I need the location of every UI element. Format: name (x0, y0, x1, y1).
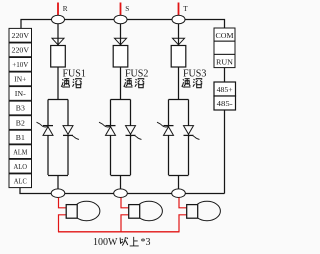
thyristor Q3b (down, right branch) (183, 126, 199, 140)
fuse holder arrow 3 (173, 38, 185, 45)
terminal COM label (216, 31, 234, 40)
wire lamp 3 feed (red) (179, 198, 187, 208)
terminal block TB1 (9, 28, 32, 187)
lamp LP3 bulb (194, 201, 221, 220)
wire SCR pair 1 to bottom node (57, 176, 59, 191)
fuse FUS1 label (63, 68, 86, 79)
svg-text:ALO: ALO (14, 162, 28, 171)
terminal TB1 pin B3 row 6 (16, 104, 25, 113)
node top junction S (114, 15, 127, 24)
caption 100W minimum x3 (93, 237, 151, 248)
svg-text:FUS2: FUS2 (125, 68, 148, 79)
lamp LP2 base (129, 205, 140, 219)
wire lamp common bus (red) (58, 231, 180, 233)
node top junction R (52, 15, 65, 24)
wire lamp 3 return to bus (red) (179, 215, 187, 232)
node top junction T (172, 15, 185, 24)
wire SCR pair 2 to bottom node (120, 176, 122, 191)
svg-text:100W: 100W (93, 237, 118, 248)
fuse holder arrow 2 (115, 38, 127, 45)
terminal TB1 pin ALO row 10 (14, 162, 28, 171)
thyristor Q2b (down, right branch) (125, 126, 141, 140)
svg-text:485+: 485+ (217, 87, 233, 94)
wire lamp 1 return to bus (red) (59, 215, 67, 232)
lamp LP3 base (187, 205, 198, 219)
wire SCR pair loop 3 (169, 100, 189, 176)
svg-text:RUN: RUN (216, 58, 234, 67)
wire fuse FUS2 to SCR pair (120, 67, 122, 100)
svg-text:FUS1: FUS1 (63, 68, 86, 79)
wire lamp 2 return to bus (red) (121, 215, 129, 232)
fuse FUS1 fast-acting CJK label (62, 79, 82, 88)
wire fuse FUS3 to SCR pair (178, 67, 180, 100)
wire phase S red stub (120, 3, 122, 16)
node bottom junction 2 (114, 189, 128, 198)
wire fuse FUS1 to SCR pair (57, 67, 59, 100)
terminal TB1 pin ALC row 11 (14, 176, 27, 185)
node R phase label (63, 5, 68, 13)
wire node to fuse F3 (178, 23, 180, 46)
wire riser RUN to 485 box (224, 68, 226, 83)
svg-text:220V: 220V (12, 31, 30, 40)
fuse FUS2 fast-acting CJK label (124, 79, 144, 88)
svg-text:*3: *3 (141, 237, 151, 248)
fuse FUS3 body (171, 46, 186, 68)
lamp LP1 base (66, 205, 77, 219)
svg-text:COM: COM (216, 31, 234, 40)
svg-text:IN+: IN+ (14, 75, 26, 84)
thyristor Q3a (up, left branch) (157, 122, 174, 135)
terminal 485+ label (217, 87, 233, 94)
thyristor Q1a (up, left branch) (37, 122, 54, 135)
svg-text:FUS3: FUS3 (183, 68, 206, 79)
node bottom junction 3 (172, 189, 186, 198)
wire SCR pair loop 2 (111, 100, 131, 176)
terminal TB1 pin +10V row 3 (12, 60, 29, 69)
wire riser 485 box to bottom bus (224, 110, 226, 194)
wire SCR pair loop 1 (48, 100, 68, 176)
wire node to fuse F1 (57, 23, 59, 46)
fuse FUS1 body (51, 46, 66, 68)
svg-text:+10V: +10V (12, 60, 29, 69)
wire SCR pair 3 to bottom node (178, 176, 180, 191)
wire node to fuse F2 (120, 23, 122, 46)
lamp LP1 bulb (73, 201, 100, 220)
svg-text:B3: B3 (16, 104, 25, 113)
svg-text:220V: 220V (12, 46, 30, 55)
fuse FUS2 body (113, 46, 128, 68)
svg-text:T: T (183, 5, 188, 13)
connector block RS-485 (214, 82, 236, 110)
wire phase T red stub (178, 3, 180, 16)
wire phase R red stub (57, 3, 59, 16)
thyristor Q2a (up, left branch) (99, 122, 116, 135)
svg-text:B2: B2 (16, 118, 25, 127)
wire top bus from terminal block to COM box (21, 20, 225, 29)
svg-text:B1: B1 (16, 133, 25, 142)
wire lamp 1 feed (red) (59, 198, 67, 208)
node T phase label (183, 5, 188, 13)
svg-text:IN-: IN- (15, 89, 27, 98)
terminal TB1 pin 220V row 1 (12, 31, 30, 40)
fuse FUS2 label (125, 68, 148, 79)
svg-text:ALC: ALC (14, 176, 27, 185)
terminal TB1 pin ALM row 9 (13, 147, 27, 156)
terminal TB1 pin B1 row 8 (16, 133, 25, 142)
thyristor Q1b (down, right branch) (63, 126, 79, 140)
svg-text:S: S (125, 5, 129, 13)
terminal TB1 pin IN+ row 4 (14, 75, 26, 84)
fuse FUS3 label (183, 68, 206, 79)
fuse FUS3 fast-acting CJK label (182, 79, 202, 88)
terminal 485- label (217, 101, 234, 108)
svg-text:ALM: ALM (13, 147, 27, 156)
lamp LP2 bulb (136, 201, 163, 220)
svg-text:R: R (63, 5, 68, 13)
terminal TB1 pin IN- row 5 (15, 89, 27, 98)
connector block COM/RUN (214, 28, 235, 68)
terminal TB1 pin B2 row 7 (16, 118, 25, 127)
node bottom junction 1 (51, 189, 65, 198)
fuse holder arrow 1 (52, 38, 64, 45)
terminal TB1 pin 220V row 2 (12, 46, 30, 55)
node S phase label (125, 5, 129, 13)
terminal RUN label (216, 58, 234, 67)
wire bottom bus from terminal block bottom to right riser (20, 188, 225, 194)
svg-text:485-: 485- (217, 101, 234, 108)
wire lamp 2 feed (red) (121, 198, 129, 208)
